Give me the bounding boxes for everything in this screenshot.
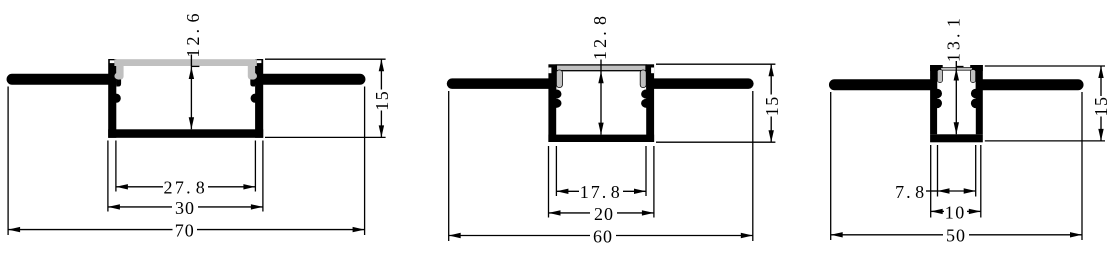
P1 ext line 27.8 left xyxy=(115,141,117,192)
P1 left wall xyxy=(108,59,116,138)
P3 ext line 7.8 right xyxy=(975,145,977,197)
dim 60 line left segment xyxy=(449,235,590,237)
P3 diffuser top bar xyxy=(941,68,973,71)
P2 right wall xyxy=(646,64,654,142)
dim 70 left arrow xyxy=(8,227,20,232)
dim 15 bottom extension line xyxy=(265,136,386,138)
dim 50 line left segment xyxy=(831,234,943,236)
P1 right clip bump xyxy=(251,94,260,103)
P3 dim 15 top extension line xyxy=(985,65,1105,67)
dim 60 line right segment xyxy=(616,235,753,237)
dim 12.6 line xyxy=(190,55,192,130)
P3 left lip xyxy=(930,65,943,71)
dim 70 right arrow xyxy=(353,227,365,232)
P3 channel bottom xyxy=(930,134,983,142)
svg-text:20: 20 xyxy=(594,204,614,224)
P3 ext line 10 right xyxy=(980,145,982,218)
dim 12.8 down arrow xyxy=(598,123,603,135)
P2 diffuser bar xyxy=(556,65,646,71)
P2 left clip bumps xyxy=(551,89,562,98)
P2 dim 15 bottom extension line xyxy=(656,141,775,143)
dim 7.8 left arrow xyxy=(938,188,950,193)
dim 50 right arrow xyxy=(1070,232,1082,237)
dim 27.8 right arrow xyxy=(243,184,255,189)
P3 dim 15 bottom extension line xyxy=(985,140,1105,142)
svg-text:15: 15 xyxy=(1091,96,1111,117)
P1 flange left wing xyxy=(7,74,117,85)
P1 ext line 30 left xyxy=(107,141,109,212)
P3 ext line 50 right xyxy=(1081,92,1083,240)
P3 right wall xyxy=(976,65,983,134)
P1 ext line 70 right xyxy=(364,87,366,236)
dim 60 left arrow xyxy=(449,233,461,238)
dim 15 up arrow xyxy=(379,59,384,71)
svg-text:12.6: 12.6 xyxy=(183,10,203,57)
P1 flange right wing xyxy=(255,74,365,85)
P1 ext line 30 right xyxy=(262,141,264,212)
dim 10 left arrow xyxy=(931,209,943,214)
svg-text:13.1: 13.1 xyxy=(943,15,963,62)
P3 right lip xyxy=(970,65,983,71)
P3 dim 15 down arrow xyxy=(1098,129,1103,141)
dim 12.6 top tick xyxy=(191,65,199,67)
dim 60 right arrow xyxy=(741,233,753,238)
svg-text:17.8: 17.8 xyxy=(580,182,622,202)
dim 27.8 line left segment xyxy=(116,186,163,188)
dim 30 left arrow xyxy=(108,204,120,209)
dim 20 line right segment xyxy=(617,212,654,214)
P1 ext line 27.8 right xyxy=(254,141,256,192)
dim 50 left arrow xyxy=(831,232,843,237)
P2 ext line 17.8 left xyxy=(555,146,557,196)
dim 20 left arrow xyxy=(549,210,561,215)
dim 30 right arrow xyxy=(251,204,263,209)
P1 left wall top notch xyxy=(110,60,115,63)
P2 right clip bumps xyxy=(641,89,652,98)
svg-text:7.8: 7.8 xyxy=(895,182,926,202)
dim 15 line xyxy=(380,59,382,89)
P2 flange right wing xyxy=(646,78,753,89)
dim 12.6 up arrow xyxy=(189,67,194,79)
P2 dim 15 up arrow xyxy=(769,64,774,76)
P1 diffuser right foot xyxy=(249,72,257,79)
P2 left wall xyxy=(548,64,556,142)
P1 diffuser left leg xyxy=(116,63,123,80)
dim 7.8 leader xyxy=(926,190,938,192)
dim 20 right arrow xyxy=(642,210,654,215)
P2 ext line 17.8 right xyxy=(645,146,647,196)
dim 17.8 right arrow xyxy=(634,189,646,194)
dim 12.8 line xyxy=(600,60,602,135)
svg-text:60: 60 xyxy=(593,226,613,246)
P1 diffuser right leg xyxy=(248,63,255,80)
P3 ext line 10 left xyxy=(930,145,932,218)
P2 ext line 60 left xyxy=(448,91,450,241)
dim 20 line left segment xyxy=(549,212,591,214)
dim 12.8 up arrow xyxy=(598,71,603,83)
P2 right wall outer notch xyxy=(651,68,654,74)
dim 13.1 up arrow xyxy=(954,69,959,81)
dim 10 line left stub xyxy=(931,210,944,212)
P3 diffuser left leg xyxy=(937,70,942,83)
dim 12.6 down arrow xyxy=(189,117,194,129)
P2 diffuser left leg xyxy=(556,70,562,88)
dim 17.8 line left segment xyxy=(556,190,579,192)
P2 dim 15 down arrow xyxy=(769,130,774,142)
P2 dim 15 line xyxy=(770,64,772,94)
svg-text:10: 10 xyxy=(945,202,966,222)
dim 17.8 left arrow xyxy=(556,189,568,194)
P3 diffuser right leg xyxy=(970,70,975,83)
P3 flange left wing xyxy=(829,79,937,90)
P2 dim 15 top extension line xyxy=(656,63,775,65)
dim 13.1 top tick xyxy=(956,66,963,68)
svg-text:70: 70 xyxy=(175,221,195,241)
P3 ext line 7.8 left xyxy=(937,145,939,197)
svg-text:30: 30 xyxy=(175,198,195,218)
dim 15 top extension line xyxy=(265,58,386,60)
P3 dim 15 up arrow xyxy=(1098,66,1103,78)
dim 30 line right segment xyxy=(198,206,263,208)
dim 27.8 left arrow xyxy=(116,184,128,189)
P1 right wall xyxy=(255,59,263,138)
svg-text:50: 50 xyxy=(946,226,966,246)
svg-text:15: 15 xyxy=(372,90,392,111)
P1 diffuser left foot xyxy=(114,72,122,79)
P1 right joint tooth xyxy=(250,74,255,87)
dim 50 line right segment xyxy=(969,234,1082,236)
dim 30 line left segment xyxy=(108,206,172,208)
P3 left clip bumps xyxy=(932,89,942,99)
dim 7.8 right arrow xyxy=(964,188,976,193)
P2 ext line 20 right xyxy=(653,146,655,218)
P3 right clip bumps xyxy=(971,89,981,99)
P1 channel bottom xyxy=(108,129,263,138)
P2 flange left wing xyxy=(447,78,557,89)
P3 flange right wing xyxy=(976,79,1084,90)
svg-text:27.8: 27.8 xyxy=(164,178,208,198)
P1 diffuser bar xyxy=(114,59,256,66)
dim 7.8 shaft xyxy=(938,190,976,192)
svg-text:12.8: 12.8 xyxy=(590,13,610,60)
P1 left clip bump xyxy=(112,94,121,103)
dim 13.1 line xyxy=(955,61,957,134)
dim 13.1 down arrow xyxy=(954,122,959,134)
dim 17.8 line right segment xyxy=(623,190,646,192)
P3 left wall xyxy=(930,65,937,134)
dim 70 line right segment xyxy=(197,229,365,231)
P2 diffuser right leg xyxy=(640,70,646,88)
P2 left wall outer notch xyxy=(548,68,551,74)
P1 left joint tooth xyxy=(116,74,121,87)
dim 70 line left segment xyxy=(8,229,172,231)
dim 10 line right stub xyxy=(967,210,981,212)
P2 ext line 60 right xyxy=(752,91,754,241)
P2 ext line 20 left xyxy=(548,146,550,218)
P3 dim 15 line xyxy=(1100,66,1102,96)
P1 right wall top notch xyxy=(257,60,262,63)
svg-text:15: 15 xyxy=(762,95,782,116)
P2 channel bottom xyxy=(548,135,654,142)
P3 ext line 50 left xyxy=(830,92,832,240)
P1 ext line 70 left xyxy=(7,87,9,236)
dim 10 right arrow xyxy=(969,209,981,214)
dim 27.8 line right segment xyxy=(208,186,255,188)
dim 15 down arrow xyxy=(379,125,384,137)
